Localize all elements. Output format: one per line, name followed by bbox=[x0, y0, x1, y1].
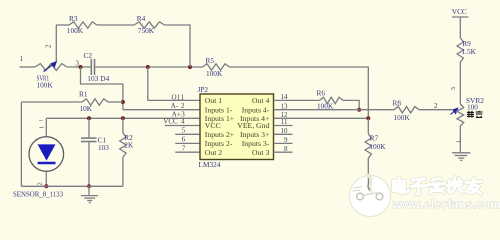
SVR1 wiper vertical wire bbox=[55, 25, 57, 61]
pin 11 stub bbox=[274, 125, 293, 127]
svg-text:2K: 2K bbox=[124, 140, 134, 149]
svg-text:1.5K: 1.5K bbox=[462, 47, 477, 56]
junction pin12 / R7 node bbox=[366, 116, 370, 120]
svg-text:Inputs 2+: Inputs 2+ bbox=[205, 130, 234, 139]
wire SVR1 to C2 bbox=[67, 66, 91, 68]
svg-text:100K: 100K bbox=[206, 69, 223, 78]
C1 bottom lead bbox=[88, 142, 90, 186]
char jing bbox=[467, 111, 474, 113]
junction R1 right end bbox=[121, 100, 125, 104]
wire R1 right lead bbox=[108, 101, 123, 103]
svg-text:Out 2: Out 2 bbox=[205, 148, 222, 157]
wire pin 14 to R6 bbox=[274, 99, 320, 101]
resistor R3 bbox=[69, 22, 97, 28]
wire R3 to R4 bbox=[97, 24, 134, 26]
svg-text:R1: R1 bbox=[79, 90, 88, 99]
wire pin 13 to R8 bbox=[274, 109, 395, 111]
VCC power bar bbox=[452, 16, 469, 18]
SVR2 wiper arrow bbox=[451, 107, 459, 114]
R2 bottom lead bbox=[122, 157, 124, 186]
svg-text:R8: R8 bbox=[393, 98, 402, 107]
wire VCC stub to pin 4 bbox=[165, 125, 201, 127]
sensor bottom lead bbox=[45, 171, 47, 186]
svg-text:R5: R5 bbox=[206, 56, 215, 65]
op-amp IC JP2 body bbox=[200, 94, 274, 160]
svg-text:3: 3 bbox=[450, 87, 457, 90]
svg-text:R3: R3 bbox=[69, 14, 78, 23]
svg-text:5: 5 bbox=[182, 127, 186, 135]
capacitor C1 plates bbox=[81, 138, 97, 141]
ground symbol (right) bbox=[452, 153, 470, 161]
R7 top lead bbox=[367, 118, 369, 134]
svg-text:2: 2 bbox=[37, 182, 44, 185]
svg-text:−: − bbox=[39, 116, 44, 125]
sensor top lead bbox=[45, 118, 47, 136]
wire R4 down to main wire bbox=[165, 25, 191, 67]
pin 5 stub bbox=[175, 133, 200, 135]
svg-text:6: 6 bbox=[182, 136, 186, 144]
svg-text:Inputs 3+: Inputs 3+ bbox=[240, 130, 269, 139]
wire R1 left lead bbox=[21, 101, 82, 103]
svg-text:100K: 100K bbox=[394, 113, 411, 122]
resistor R8 bbox=[394, 107, 419, 113]
wire VCC to R9 bbox=[459, 17, 461, 38]
svg-text:VCC: VCC bbox=[452, 7, 467, 16]
svg-text:1: 1 bbox=[456, 140, 463, 143]
junction on main wire at branch bbox=[79, 65, 83, 69]
svg-text:100K: 100K bbox=[369, 142, 386, 151]
svg-text:100K: 100K bbox=[67, 26, 84, 35]
wire R1 left lead down to ground rail bbox=[20, 102, 22, 186]
wire pin 12 to node bbox=[274, 117, 369, 119]
wire input to SVR1 bbox=[20, 66, 36, 68]
svg-text:www.elecfans.com: www.elecfans.com bbox=[392, 197, 500, 211]
svg-text:LM324: LM324 bbox=[199, 160, 221, 169]
junction sensor bottom on ground rail bbox=[44, 184, 48, 188]
svg-text:Inputs 2-: Inputs 2- bbox=[205, 139, 233, 148]
svg-text:Inputs 3-: Inputs 3- bbox=[242, 139, 270, 148]
svg-text:4: 4 bbox=[181, 117, 185, 125]
svg-text:Out 3: Out 3 bbox=[252, 148, 269, 157]
char mi bbox=[476, 111, 483, 113]
watermark logo circle bbox=[350, 176, 391, 217]
pin 10 stub bbox=[274, 133, 293, 135]
ground rail bbox=[21, 185, 123, 187]
svg-text:VCC: VCC bbox=[205, 121, 221, 130]
svg-text:D4: D4 bbox=[100, 74, 109, 83]
capacitor C2 plates bbox=[91, 59, 94, 75]
resistor R4 bbox=[134, 22, 165, 28]
label 精密 (precision) bbox=[467, 111, 483, 118]
resistor R6 bbox=[320, 97, 344, 103]
svg-text:A-: A- bbox=[171, 102, 179, 110]
potentiometer SVR2 body bbox=[457, 104, 464, 126]
svg-text:C2: C2 bbox=[84, 51, 93, 60]
watermark text 电子发烧友 bbox=[394, 178, 482, 195]
svg-text:750K: 750K bbox=[138, 26, 155, 35]
svg-text:VEE, Gnd: VEE, Gnd bbox=[237, 121, 269, 130]
svg-text:1: 1 bbox=[20, 55, 24, 63]
svg-text:VCC: VCC bbox=[163, 117, 178, 125]
svg-text:1: 1 bbox=[39, 126, 46, 129]
junction main wire / R4 top loop bbox=[188, 65, 192, 69]
junction C1 top on A+ rail bbox=[87, 116, 91, 120]
svg-text:103: 103 bbox=[98, 143, 109, 152]
resistor R7 bbox=[365, 134, 371, 158]
wire C2 to R5 bbox=[95, 66, 202, 68]
svg-text:100K: 100K bbox=[37, 81, 54, 90]
svg-text:Out 1: Out 1 bbox=[205, 96, 222, 105]
resistor R5 bbox=[203, 64, 230, 70]
pin 6 stub bbox=[175, 142, 200, 144]
junction R6 / pin13 wire bbox=[357, 108, 361, 112]
svg-text:100: 100 bbox=[467, 102, 478, 111]
svg-text:2: 2 bbox=[45, 44, 53, 48]
svg-text:JP2: JP2 bbox=[198, 85, 209, 94]
wire R8 to SVR2 wiper bbox=[419, 109, 452, 111]
junction R2 top on A+ rail bbox=[121, 116, 125, 120]
ground stub bbox=[88, 186, 90, 195]
svg-text:R6: R6 bbox=[317, 88, 326, 97]
resistor R2 bbox=[120, 133, 126, 157]
svg-text:R4: R4 bbox=[137, 14, 146, 23]
wire R5 to down node bbox=[230, 67, 369, 118]
junction C1 bottom / ground bbox=[87, 184, 91, 188]
wire R6 down to pin13 net bbox=[343, 100, 359, 109]
R7 bottom lead bbox=[367, 158, 369, 178]
ground symbol (left) bbox=[81, 196, 98, 203]
wire A+ rail to IC pin 3 bbox=[46, 117, 200, 119]
photodiode D1 circle bbox=[29, 137, 64, 172]
SVR1 wiper arrow bbox=[44, 61, 58, 72]
svg-text:7: 7 bbox=[182, 144, 186, 152]
wire branch to A- node bbox=[81, 67, 123, 110]
svg-text:O1: O1 bbox=[172, 93, 181, 101]
photodiode cathode bar bbox=[38, 162, 56, 165]
svg-text:2: 2 bbox=[434, 102, 438, 110]
C1 top lead bbox=[88, 118, 90, 137]
pin 9 stub bbox=[274, 142, 293, 144]
R2 top lead bbox=[122, 118, 124, 133]
svg-text:SENSOR_8_1133: SENSOR_8_1133 bbox=[13, 190, 63, 198]
resistor R1 bbox=[82, 99, 108, 105]
photodiode triangle bbox=[38, 144, 56, 160]
wire R9 to SVR2 bbox=[459, 62, 461, 104]
pin 7 stub bbox=[175, 151, 200, 153]
svg-text:Out 4: Out 4 bbox=[252, 96, 269, 105]
SVR2 bottom lead bbox=[459, 126, 461, 153]
resistor R9 bbox=[457, 38, 463, 62]
svg-text:10K: 10K bbox=[80, 104, 93, 113]
svg-text:2: 2 bbox=[181, 102, 185, 110]
wire A- to IC pin 2 bbox=[123, 109, 201, 111]
svg-text:103: 103 bbox=[87, 74, 98, 83]
potentiometer SVR1 body bbox=[35, 64, 67, 71]
svg-text:1: 1 bbox=[181, 93, 185, 101]
junction main wire / Out1 feedback bbox=[146, 65, 150, 69]
wire Out1 to main node bbox=[148, 67, 201, 100]
pin 8 stub bbox=[274, 151, 293, 153]
wire wiper up to top loop bbox=[56, 24, 69, 26]
